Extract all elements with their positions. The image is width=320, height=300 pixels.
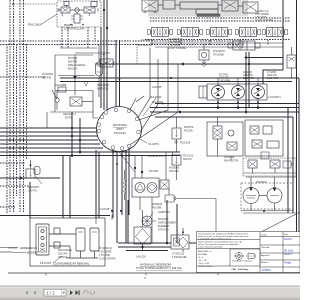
icon rotate tools (84, 291, 95, 295)
svg-text:LAUC26: LAUC26 (136, 255, 146, 259)
svg-text:.XX ± .06: .XX ± .06 (198, 260, 207, 262)
valve MU-2/3H small with labels (100, 59, 115, 67)
svg-text:strsFT2: strsFT2 (284, 253, 293, 256)
valve right mid under bank (228, 41, 260, 50)
svg-text:5/12/04: 5/12/04 (284, 239, 292, 241)
svg-text:MU/16V: MU/16V (68, 67, 78, 71)
svg-text:HYDRAULIC RESERVOIR: HYDRAULIC RESERVOIR (140, 263, 171, 267)
valve DCV1 (147, 28, 172, 37)
valve DCV5 (262, 28, 287, 37)
svg-text:.XXX ± .030: .XXX ± .030 (198, 263, 210, 265)
svg-text:1-NJUSDT1: 1-NJUSDT1 (268, 96, 282, 99)
svg-text:is prohibited without written: is prohibited without written consent. (198, 237, 232, 240)
wire horizontal buses y59-81 (60, 57, 299, 84)
rotating joint PILIC13A (97, 107, 142, 152)
icon first page (25, 291, 28, 295)
valve box right mid cluster (207, 117, 243, 160)
controller RIGHT CONTROLLER (57, 1, 101, 27)
svg-text:CONTROLLER: CONTROLLER (64, 27, 85, 31)
svg-text:LAUC2B: LAUC2B (100, 208, 110, 211)
wire sheet border right (296, 0, 298, 273)
valve center cluster box (112, 151, 181, 243)
svg-text:HDPEHSCV6: HDPEHSCV6 (20, 246, 38, 250)
valve DCV4 (235, 28, 260, 37)
valve check HSUSN07 (47, 91, 93, 129)
svg-text:300 PSI: 300 PSI (183, 158, 192, 161)
valve bank row1 top right (142, 0, 258, 17)
pump P1 (212, 86, 225, 99)
wire reservoir lines (118, 200, 196, 251)
svg-text:PILIC1H2: PILIC1H2 (28, 23, 41, 27)
toolbar (0, 286, 300, 300)
wire rotating joint right diagonals (130, 48, 178, 145)
svg-text:Checked: Checked (261, 247, 270, 249)
svg-text:SD LA23: SD LA23 (284, 250, 294, 253)
svg-text:2160 RPM: 2160 RPM (267, 77, 278, 80)
svg-text:Drawn: Drawn (261, 234, 268, 237)
pump P3 (252, 86, 265, 99)
pilot line grid top-left (0, 0, 243, 213)
valve DCV2 (177, 28, 202, 37)
wire pump feeds (217, 78, 259, 107)
svg-text:Approval: Approval (261, 254, 270, 257)
wire pilot top horizontal (14, 3, 58, 5)
svg-text:FARROUS: FARROUS (158, 211, 170, 214)
wire rotating joint bottom drops (30, 112, 129, 243)
wire valve bank interconnects (145, 18, 290, 45)
motor M1 fan drive circles (241, 177, 296, 213)
svg-text:PILIC6M: PILIC6M (152, 207, 161, 210)
svg-text:L6J/4S5: L6J/4S5 (152, 85, 162, 89)
valve bank row1 manifold shade (148, 0, 248, 17)
svg-text:1.75" ROD: 1.75" ROD (99, 255, 110, 257)
text pump specs (219, 71, 278, 83)
text cylinder spec top right (255, 10, 273, 22)
svg-text:PILIC6D: PILIC6D (149, 170, 158, 173)
svg-text:DILIC6B5: DILIC6B5 (55, 83, 67, 87)
valve DCV3 (206, 28, 231, 37)
svg-text:CAD - Solid Edge: CAD - Solid Edge (232, 268, 250, 271)
pump group P1 P2 P3 (199, 84, 267, 100)
svg-text:PILIC1S6: PILIC1S6 (180, 142, 191, 145)
valve dashed box right column (243, 158, 296, 176)
wire pilot vertical x137 (136, 44, 138, 64)
wire title block diagonal (262, 212, 300, 232)
wire tank return left (0, 215, 110, 217)
svg-text:DECIMAL: DECIMAL (198, 253, 208, 256)
svg-text:300 PSI: 300 PSI (28, 190, 37, 193)
counterweight removal block (30, 218, 105, 266)
svg-text:FAN MOTOR: FAN MOTOR (224, 160, 238, 163)
wire check valve elbow (93, 102, 98, 119)
svg-text:MULTIVALVE: MULTIVALVE (58, 249, 72, 252)
sheet border bottom (8, 272, 300, 274)
wire left horizontal bundle to rotating joint (0, 128, 180, 156)
svg-text:41.50" STROKE: 41.50" STROKE (168, 47, 186, 50)
pump P2 (232, 86, 245, 99)
svg-text:55.PSI6: 55.PSI6 (68, 56, 78, 60)
svg-text:1000 PSI: 1000 PSI (169, 170, 179, 173)
wire left bottom connectors (0, 215, 112, 252)
svg-text:6RU/6O36: 6RU/6O36 (97, 88, 109, 91)
svg-text:PRE-CHARGE: PRE-CHARGE (68, 63, 86, 67)
svg-text:NJUSDN (2): NJUSDN (2) (138, 44, 152, 47)
icon third angle projection (234, 252, 257, 261)
svg-text:PSU3H42: PSU3H42 (256, 181, 267, 184)
valve SHUSD7D stud (199, 44, 209, 67)
svg-text:STUD/6B: STUD/6B (213, 54, 224, 57)
valve pre-charge block (50, 45, 110, 113)
svg-text:8793611: 8793611 (262, 270, 271, 272)
svg-text:Material: Material (261, 261, 269, 264)
wire right edge verticals (246, 0, 299, 240)
svg-text:6 PSI RELIEF: 6 PSI RELIEF (172, 256, 187, 259)
svg-text:TOTAL SYSTEM CAPACITY = 206 GA: TOTAL SYSTEM CAPACITY = 206 GAL (136, 266, 183, 270)
svg-text:COUNTERWEIGHT REMOVAL: COUNTERWEIGHT REMOVAL (53, 262, 90, 266)
svg-text:PILIC1XF: PILIC1XF (40, 261, 52, 265)
svg-text:S1.UD7S: S1.UD7S (148, 142, 159, 146)
title block (197, 232, 301, 273)
icon page box (44, 289, 66, 296)
svg-text:2CV26N1: 2CV26N1 (42, 72, 54, 76)
svg-text:Freight: Freight (284, 262, 292, 265)
svg-text:JT-20000 (2): JT-20000 (2) (99, 248, 112, 250)
wire controller down-bundle (101, 0, 121, 111)
svg-text:50 PSI: 50 PSI (65, 117, 73, 120)
svg-text:200 CRA: 200 CRA (58, 253, 68, 256)
wire main lower buses (150, 104, 299, 118)
svg-text:65.DDE7: 65.DDE7 (27, 251, 39, 255)
svg-text:.XXXX ± .0005: .XXXX ± .0005 (198, 266, 212, 268)
wire pilot horizontals left lower (0, 163, 30, 207)
svg-text:PILIC13A: PILIC13A (114, 131, 126, 135)
svg-text:500 PSI: 500 PSI (68, 60, 78, 64)
svg-text:MUSDN6 20 PSI: MUSDN6 20 PSI (148, 155, 166, 158)
cooler fan circle (142, 216, 152, 226)
wire tank stub y178 (0, 177, 60, 179)
valve small MU3T56 (172, 117, 181, 152)
node L6J/4S5 labels right of joint (150, 85, 163, 104)
svg-text:22.29" STROKE: 22.29" STROKE (99, 259, 116, 261)
svg-text:1 / 2: 1 / 2 (47, 291, 56, 296)
relief valve SHUSDP left (20, 160, 42, 184)
svg-text:4.50" BORE: 4.50" BORE (99, 252, 112, 254)
valve box right cluster2 (245, 120, 283, 156)
valve right edge component (287, 47, 296, 78)
svg-text:41.40" STROKE: 41.40" STROKE (255, 19, 273, 22)
heat exchanger diamond (134, 210, 151, 250)
svg-text:Third Angle Projection: Third Angle Projection (232, 260, 253, 263)
svg-text:500 PSI: 500 PSI (42, 76, 52, 80)
svg-text:2160 RPM: 2160 RPM (219, 80, 230, 83)
svg-text:ANGULAR ± 1°: ANGULAR ± 1° (198, 250, 212, 253)
svg-text:PILIC66: PILIC66 (184, 130, 193, 133)
icon next page (70, 290, 73, 295)
filter F1 (171, 228, 189, 252)
svg-text:.X ± 1: .X ± 1 (198, 257, 204, 259)
svg-text:unless otherwise specified.: unless otherwise specified. (198, 246, 223, 249)
